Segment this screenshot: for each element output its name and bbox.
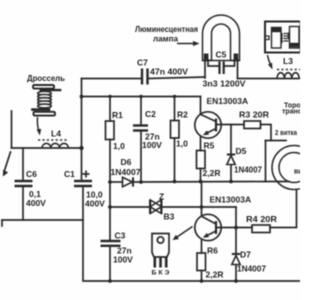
wire: left input diagonal lead (cut off) bbox=[4, 152, 11, 172]
arrow: box to L3 bbox=[268, 55, 273, 70]
svg-text:Люминесцентная: Люминесцентная bbox=[135, 25, 198, 34]
inductor L4 dashed core bbox=[38, 139, 68, 141]
capacitor C3 bbox=[101, 241, 121, 246]
svg-text:Б К Э: Б К Э bbox=[152, 270, 170, 277]
svg-text:1,0: 1,0 bbox=[176, 139, 188, 149]
lamp right filament bbox=[234, 54, 239, 60]
wire: C7 right plate to lamp left outer lead bbox=[149, 77, 206, 79]
wire: lamp left outer lead bbox=[204, 60, 206, 78]
lamp left filament bbox=[204, 54, 209, 60]
svg-text:B3: B3 bbox=[164, 212, 175, 222]
wire: R2 top lead bbox=[174, 97, 176, 121]
svg-text:400V: 400V bbox=[26, 198, 46, 208]
wire: R5 bottom to midpoint line bbox=[200, 169, 202, 182]
svg-text:C5: C5 bbox=[216, 50, 227, 60]
svg-text:вит: вит bbox=[294, 169, 300, 176]
wire: R4 right lead up to toroid bbox=[270, 190, 297, 228]
svg-text:D5: D5 bbox=[236, 146, 247, 156]
wire: left input vertical stub bbox=[11, 111, 13, 148]
wire: diac line left segment bbox=[110, 206, 150, 208]
toroidal transformer outer ring bbox=[272, 146, 316, 190]
fluorescent lamp U-tube bbox=[203, 15, 240, 61]
svg-text:C7: C7 bbox=[137, 58, 148, 68]
resistor R5 bbox=[197, 151, 206, 169]
svg-text:400V: 400V bbox=[85, 199, 105, 209]
arrow: Q2 to package bbox=[173, 227, 193, 241]
inductor L4 coil bbox=[42, 143, 68, 148]
svg-text:2 витка: 2 витка bbox=[275, 128, 298, 137]
diac B3 bbox=[150, 200, 162, 215]
wire: diac line right segment to corner bbox=[162, 206, 236, 208]
wire: under-toroid segment of midpoint line bbox=[266, 181, 290, 183]
svg-text:3n3 1200V: 3n3 1200V bbox=[203, 79, 246, 89]
wire: R1 bottom lead to D6 node bbox=[109, 140, 111, 183]
wire: left edge tick bbox=[1, 220, 3, 226]
svg-text:2,2R: 2,2R bbox=[206, 270, 224, 280]
resistor R4 bbox=[252, 225, 270, 233]
diode D5 bbox=[227, 155, 235, 165]
inductor L3 coil bbox=[277, 73, 299, 79]
diode D6 bbox=[123, 177, 134, 186]
svg-text:R4 20R: R4 20R bbox=[246, 214, 277, 224]
transformer box left stub bbox=[265, 36, 269, 40]
transistor Q2 emitter stroke with arrow bbox=[203, 231, 216, 238]
label: C1 plus sign bbox=[83, 171, 90, 178]
transistor Q1 emitter stroke with arrow bbox=[203, 129, 216, 136]
transistor Q2 base bar bbox=[215, 221, 217, 234]
choke L4 pictorial: top flange bbox=[33, 85, 54, 89]
wire: R2 bottom lead bbox=[174, 138, 176, 182]
transistor Q1 EN13003A circle bbox=[195, 112, 221, 138]
resistor R3 bbox=[244, 121, 261, 129]
svg-text:C1: C1 bbox=[64, 169, 75, 179]
choke L4 pictorial: bottom core bar bbox=[31, 108, 51, 111]
toroidal transformer inner ring bbox=[279, 153, 309, 183]
wire: feedback winding left edge bbox=[265, 141, 267, 182]
wire: L3 line to right edge bbox=[238, 78, 301, 80]
wire: C2 bottom lead bbox=[140, 132, 142, 183]
svg-text:L4: L4 bbox=[51, 129, 61, 139]
wire: Q2 base node to R4 bbox=[236, 227, 252, 229]
choke L4 pictorial: winding turns bbox=[38, 91, 52, 108]
svg-text:Z: Z bbox=[159, 192, 164, 202]
wire: Q1 emitter to R5 bbox=[200, 137, 202, 151]
resistor R6 bbox=[197, 253, 206, 271]
svg-text:C2: C2 bbox=[145, 109, 156, 119]
diode D7 bbox=[232, 254, 240, 265]
transistor Q1 base bar bbox=[215, 119, 217, 132]
choke L4 pictorial: bottom flange bbox=[34, 112, 56, 116]
svg-text:100V: 100V bbox=[113, 255, 133, 265]
svg-text:EN13003A: EN13003A bbox=[210, 195, 252, 205]
choke L4 pictorial: top core bar bbox=[40, 89, 62, 91]
svg-text:C6: C6 bbox=[26, 169, 37, 179]
wire: D6 anode segment bbox=[110, 181, 123, 183]
wire: midpoint down to Q2 collector bbox=[201, 182, 203, 215]
svg-text:D6: D6 bbox=[121, 157, 132, 167]
mains filter transformer box bbox=[265, 22, 301, 53]
capacitor C5 bbox=[220, 62, 224, 75]
transistor Q2 EN13003A circle bbox=[195, 214, 221, 240]
arrowhead of left input diagonal bbox=[3, 170, 8, 177]
svg-text:R3 20R: R3 20R bbox=[239, 110, 269, 120]
wire: D7 bottom lead bbox=[235, 265, 237, 282]
wire: C2 top lead bbox=[140, 97, 142, 125]
wire: D5 top lead from base node bbox=[230, 125, 232, 155]
svg-text:Дроссель: Дроссель bbox=[27, 73, 65, 83]
svg-text:47n 400V: 47n 400V bbox=[150, 67, 188, 77]
capacitor C1 polarized bbox=[74, 181, 92, 186]
svg-text:EN13003A: EN13003A bbox=[207, 96, 249, 106]
wire: node D6 down through diac node to C3 bbox=[109, 182, 111, 240]
svg-text:R5: R5 bbox=[204, 141, 215, 151]
wire: C1 bottom lead down and corner to bottom bus bbox=[83, 187, 300, 282]
transistor package TO-126 body bbox=[152, 234, 169, 258]
svg-text:2,2R: 2,2R bbox=[203, 168, 221, 178]
wire: +rail riser vertical x=81.5 bbox=[81, 79, 83, 180]
svg-text:R2: R2 bbox=[177, 110, 188, 120]
svg-text:100V: 100V bbox=[142, 140, 162, 150]
svg-text:C3: C3 bbox=[115, 231, 126, 241]
transistor Q1 collector stroke bbox=[201, 115, 216, 122]
capacitor C6 bbox=[15, 181, 33, 186]
arrow: choke to L4 symbol bbox=[37, 117, 42, 136]
svg-text:L3: L3 bbox=[283, 56, 293, 66]
wire: D6 cathode to C2/R2/R5 node line bbox=[134, 181, 266, 184]
wire: Q2 base wire bbox=[217, 227, 236, 229]
wire: corner down from diac line to Q2 base node bbox=[235, 207, 237, 228]
wire: lamp right inner lead to C5 bbox=[224, 60, 235, 66]
wire: Q1 base to R3 bbox=[217, 124, 244, 126]
svg-text:R6: R6 bbox=[207, 246, 218, 256]
resistor R1 bbox=[106, 121, 115, 140]
wire: Q1 collector drop bbox=[200, 97, 202, 115]
wire: lamp right outer lead down to L3 line bbox=[237, 60, 239, 79]
wire: top DC bus from riser to Q1 collector corner bbox=[82, 96, 201, 98]
resistor R2 bbox=[171, 121, 180, 139]
transistor package legs bbox=[155, 257, 166, 268]
transformer box core hatch bbox=[284, 34, 289, 42]
wire: D5 bottom lead bbox=[230, 165, 232, 182]
capacitor C2 bbox=[133, 126, 148, 131]
wire: Q2 emitter to R6 bbox=[201, 240, 203, 253]
svg-text:лампа: лампа bbox=[153, 35, 179, 44]
wire: L4 line from left input to +rail riser bbox=[12, 147, 82, 149]
wire: bottom-left bus y=220 bbox=[2, 219, 83, 221]
inductor L3 dashed core bbox=[277, 69, 300, 71]
wire: C6 top lead bbox=[22, 148, 24, 179]
wire: C7 feed from +rail riser to C7 left plate bbox=[82, 78, 142, 80]
svg-text:1,0: 1,0 bbox=[113, 141, 125, 151]
svg-text:R1: R1 bbox=[112, 110, 123, 120]
wire: feedback winding top edge bbox=[266, 140, 287, 142]
svg-text:трансформатор: трансформатор bbox=[282, 109, 300, 116]
wire: R3 to winding corner bbox=[261, 125, 272, 141]
wire: lamp left inner lead to C5 bbox=[208, 60, 219, 66]
svg-text:1N4007: 1N4007 bbox=[111, 167, 141, 177]
wire: C6 bottom lead bbox=[22, 188, 24, 221]
wire: R6 bottom to bus bbox=[201, 271, 203, 282]
svg-text:1N4007: 1N4007 bbox=[237, 264, 266, 274]
transformer box left winding bbox=[272, 28, 283, 49]
transformer box right winding bbox=[288, 27, 299, 49]
svg-text:1N4007: 1N4007 bbox=[234, 165, 262, 175]
arrow: to lamp bbox=[177, 41, 200, 46]
svg-text:D7: D7 bbox=[240, 250, 251, 260]
capacitor C7 bbox=[142, 69, 148, 85]
wire: R1 top lead bbox=[109, 97, 111, 122]
wire: C3 bottom lead bbox=[109, 247, 111, 281]
wire: D7 top lead bbox=[235, 228, 237, 254]
transistor Q2 collector stroke bbox=[202, 217, 216, 225]
